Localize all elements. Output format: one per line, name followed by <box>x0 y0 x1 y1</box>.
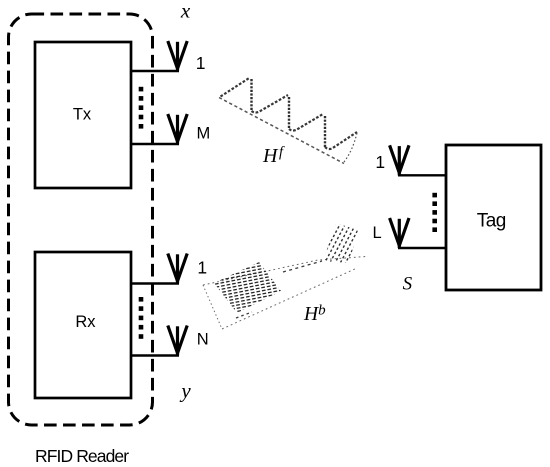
antenna Tx M <box>168 114 187 144</box>
block Rx <box>35 252 131 398</box>
dotted ellipsis Rx antennas <box>139 297 144 339</box>
svg-text:x: x <box>180 0 191 23</box>
svg-text:1: 1 <box>196 53 206 73</box>
svg-text:N: N <box>197 331 209 349</box>
wire Tx antenna M <box>130 143 179 145</box>
svg-text:Tx: Tx <box>73 106 92 124</box>
wire Tag antenna L <box>398 247 447 249</box>
dotted ellipsis Tx antennas <box>139 87 144 129</box>
svg-text:M: M <box>197 124 211 142</box>
svg-text:Hf: Hf <box>262 145 285 168</box>
antenna Tag 1 <box>390 145 409 175</box>
svg-text:Rx: Rx <box>75 313 96 331</box>
wire Rx antenna 1 <box>130 282 179 284</box>
svg-text:RFID Reader: RFID Reader <box>35 446 129 466</box>
block Tag <box>446 145 541 290</box>
antenna Rx N <box>168 326 187 356</box>
svg-text:Tag: Tag <box>477 211 506 232</box>
svg-text:Hb: Hb <box>303 303 326 326</box>
hatch cluster upper-right of Hb <box>323 223 358 263</box>
svg-text:1: 1 <box>197 257 207 277</box>
hatch cluster lower-left of Hb <box>214 262 281 313</box>
svg-text:S: S <box>403 273 413 294</box>
antenna Rx 1 <box>168 254 187 284</box>
backward channel sketch Hb hatched band <box>203 257 366 330</box>
dotted ellipsis Tag antennas <box>432 193 437 232</box>
svg-text:1: 1 <box>375 152 385 172</box>
antenna Tag L <box>390 218 409 248</box>
wire Rx antenna N <box>130 354 179 356</box>
svg-text:y: y <box>179 379 191 403</box>
wire Tag antenna 1 <box>398 174 447 176</box>
block Tx <box>35 42 131 188</box>
forward channel sketch Hf sawtooth <box>219 78 357 164</box>
svg-text:L: L <box>373 224 382 242</box>
antenna Tx 1 <box>168 41 187 71</box>
wire Tx antenna 1 <box>130 70 179 72</box>
scattered dashes along Hb band <box>236 261 322 318</box>
dashed rounded rectangle RFID Reader enclosure <box>9 14 153 425</box>
